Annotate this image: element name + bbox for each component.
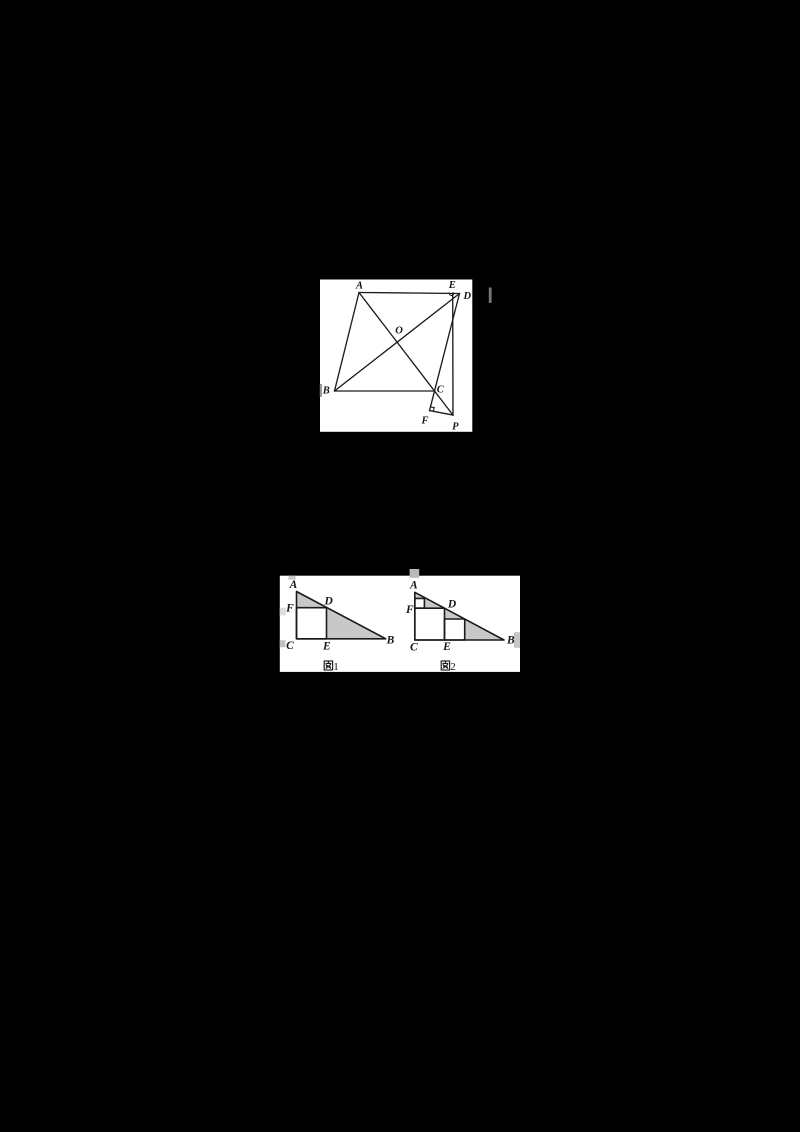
svg-text:C: C	[286, 640, 294, 652]
artifact nub left edge near F fig1	[280, 608, 286, 616]
white panel 2 (lower figures)	[280, 576, 520, 672]
svg-text:D: D	[447, 598, 457, 610]
svg-text:E: E	[322, 640, 331, 652]
side AB	[335, 293, 360, 392]
svg-text:C: C	[437, 384, 445, 395]
artifact nub above A fig2	[410, 569, 420, 578]
side BC	[335, 390, 435, 392]
svg-text:B: B	[386, 634, 395, 646]
small square fig2	[415, 598, 425, 608]
artifact nub left edge near C fig1	[280, 640, 286, 647]
side AD	[359, 293, 460, 294]
diagonal BD	[335, 294, 460, 392]
svg-text:1: 1	[333, 661, 339, 673]
square FDEC fig1	[297, 608, 327, 639]
big square fig2	[415, 608, 445, 640]
svg-text:F: F	[405, 604, 414, 616]
artifact nub above A fig1	[288, 576, 295, 580]
side DC extended to F	[430, 294, 460, 411]
svg-text:P: P	[452, 422, 459, 433]
svg-text:F: F	[285, 602, 294, 614]
artifact nub right of B fig2	[514, 632, 520, 648]
svg-text:C: C	[410, 641, 418, 653]
medium square fig2	[445, 619, 465, 640]
svg-text:A: A	[355, 280, 363, 291]
segment EP	[452, 293, 454, 415]
svg-text:A: A	[289, 579, 298, 591]
right-angle mark at F	[431, 407, 435, 411]
artifact nub right of D outside panel	[489, 288, 492, 304]
triangle ACB fig2	[415, 592, 504, 640]
shaded triangle DEB fig1	[327, 608, 386, 639]
svg-text:2: 2	[450, 661, 456, 673]
svg-text:E: E	[442, 641, 451, 653]
svg-text:D: D	[323, 596, 333, 608]
segment FP	[430, 411, 454, 416]
svg-text:B: B	[322, 385, 330, 396]
svg-text:D: D	[463, 291, 472, 302]
shaded tiny triangle at A fig2	[415, 592, 425, 598]
white panel 1 (upper figure)	[320, 280, 472, 432]
shaded triangle AFD fig1	[297, 592, 327, 608]
svg-text:O: O	[395, 325, 403, 336]
caption 图1	[324, 661, 339, 673]
diagonal AC extended to P	[359, 293, 453, 416]
svg-text:A: A	[409, 580, 418, 592]
shaded triangle right of medium square fig2	[465, 619, 504, 640]
shaded triangle below D fig2	[445, 608, 465, 619]
svg-text:B: B	[506, 635, 515, 647]
artifact nub left edge near B	[320, 384, 322, 397]
triangle ACB fig1	[297, 592, 386, 639]
caption 图2	[441, 661, 456, 673]
shaded triangle right of small square fig2	[424, 598, 444, 609]
angle arc at E	[449, 293, 454, 295]
svg-text:F: F	[420, 415, 428, 426]
svg-text:E: E	[448, 280, 456, 291]
